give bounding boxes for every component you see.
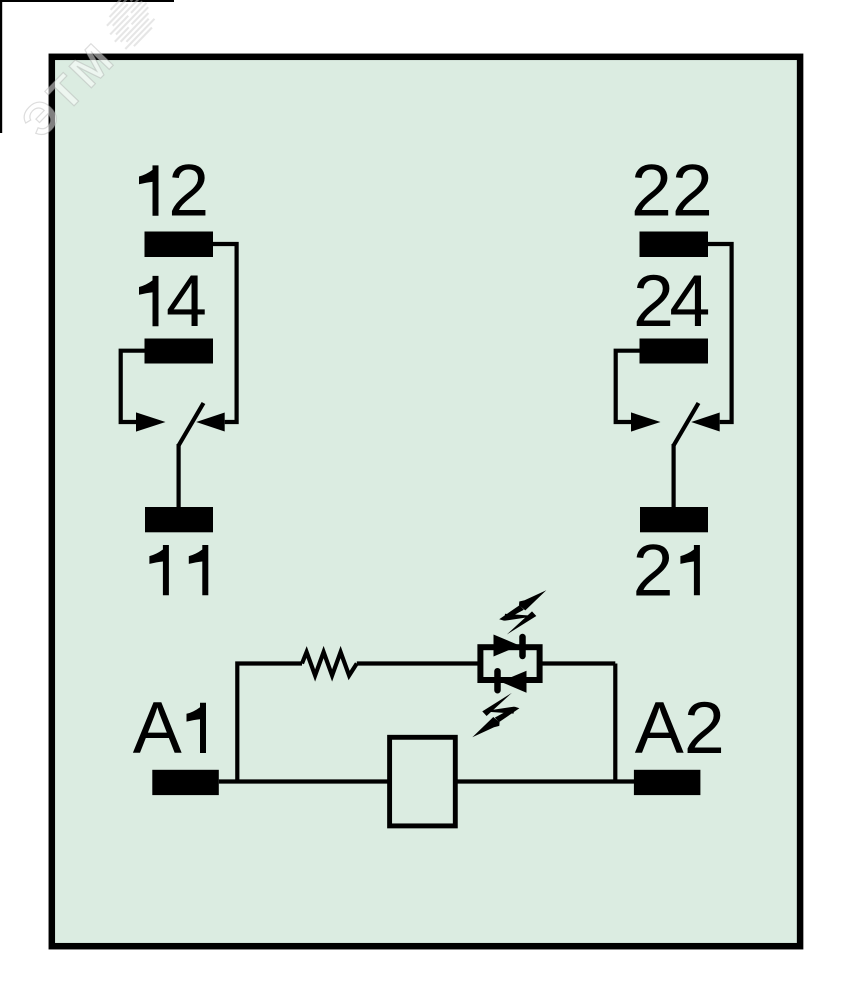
svg-text:2: 2: [633, 528, 674, 611]
svg-text:4: 4: [669, 259, 710, 342]
svg-text:2: 2: [168, 149, 209, 232]
svg-text:2: 2: [633, 259, 674, 342]
svg-text:4: 4: [166, 259, 207, 342]
svg-text:22: 22: [631, 149, 713, 232]
svg-text:A: A: [133, 686, 182, 769]
svg-text:A2: A2: [635, 686, 725, 769]
